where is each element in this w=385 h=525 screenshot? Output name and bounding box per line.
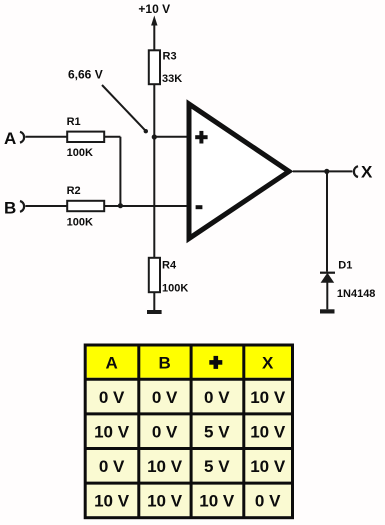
svg-text:100K: 100K	[162, 283, 188, 295]
svg-text:33K: 33K	[162, 73, 182, 85]
svg-text:0 V: 0 V	[99, 388, 125, 407]
svg-text:10 V: 10 V	[94, 492, 130, 511]
svg-text:0 V: 0 V	[204, 388, 230, 407]
svg-text:1N4148: 1N4148	[337, 288, 376, 300]
svg-text:5 V: 5 V	[204, 457, 230, 476]
svg-text:0 V: 0 V	[152, 422, 178, 441]
svg-text:5 V: 5 V	[204, 422, 230, 441]
svg-text:+10 V: +10 V	[138, 2, 170, 16]
svg-text:0 V: 0 V	[152, 388, 178, 407]
svg-text:A: A	[105, 354, 117, 373]
svg-text:D1: D1	[338, 259, 352, 271]
svg-text:10 V: 10 V	[147, 457, 183, 476]
svg-text:0 V: 0 V	[99, 457, 125, 476]
svg-text:10 V: 10 V	[250, 388, 286, 407]
svg-text:10 V: 10 V	[94, 422, 130, 441]
svg-text:A: A	[4, 129, 16, 148]
svg-text:100K: 100K	[67, 147, 93, 159]
svg-text:R4: R4	[162, 260, 177, 272]
svg-text:10 V: 10 V	[250, 422, 286, 441]
svg-text:6,66 V: 6,66 V	[68, 68, 103, 82]
svg-text:B: B	[4, 199, 16, 218]
svg-text:R1: R1	[67, 116, 81, 128]
svg-text:R2: R2	[67, 185, 81, 197]
svg-text:R3: R3	[163, 51, 177, 63]
svg-text:0 V: 0 V	[255, 492, 281, 511]
svg-text:X: X	[361, 162, 373, 181]
svg-text:10 V: 10 V	[199, 492, 235, 511]
svg-text:100K: 100K	[67, 217, 93, 229]
svg-text:X: X	[262, 354, 274, 373]
svg-text:10 V: 10 V	[250, 457, 286, 476]
svg-text:10 V: 10 V	[147, 492, 183, 511]
svg-text:B: B	[158, 354, 170, 373]
